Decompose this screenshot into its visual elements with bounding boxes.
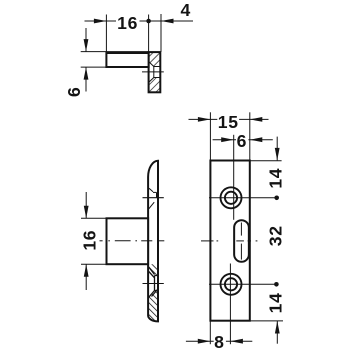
dimension 14 (top right): arrow [276, 137, 278, 161]
top view: hole centerline [142, 71, 164, 73]
svg-text:14: 14 [265, 168, 285, 189]
svg-text:16: 16 [117, 13, 138, 33]
dimension 16 (top view): dimension line and arrows [85, 20, 107, 22]
dimension 8: dimension line and arrows [186, 340, 210, 342]
dimension 14 (bottom right): extension line [250, 320, 283, 322]
dimension 15: dimension line with outside arrows [189, 118, 211, 120]
side view: plate profile hatching (sectioned lower half) [147, 264, 159, 322]
svg-text:14: 14 [265, 292, 285, 313]
dimension 16 (side view): arrows [85, 192, 87, 218]
side view: main horizontal centerline (dash-dot) [100, 240, 165, 242]
dimension 4 (top view) [160, 14, 162, 52]
front view: top hole horizontal centerline [209, 197, 277, 199]
side view: countersink section lines (bottom hole) [148, 267, 158, 298]
dimension 14 (top right): extension line [250, 160, 282, 162]
front view: top countersunk hole H1 [221, 187, 242, 208]
dimension 8: extension lines [209, 321, 211, 344]
front view: oblong slot [234, 220, 249, 262]
dimension 16 (side view): extension lines [81, 217, 107, 219]
front view: bottom countersunk hole H2 [221, 274, 242, 295]
front view: vertical centerline through holes (lower) [229, 264, 231, 345]
dimension 14 (bottom right): arrow [276, 321, 278, 344]
dimension 6 (top view): extension lines [81, 51, 149, 53]
top view: plate section outline [149, 52, 161, 92]
dimension 6 (top view): arrows [85, 28, 87, 52]
svg-text:6: 6 [237, 131, 248, 151]
top view: plate section hatching [149, 52, 161, 92]
front view: slot vertical centerline [240, 223, 242, 236]
front view: bottom hole horizontal centerline [209, 283, 277, 285]
svg-text:6: 6 [64, 87, 84, 98]
side view: bottom hole centerline [143, 283, 164, 285]
side view: top hole hidden countersink lines [149, 188, 157, 209]
front view: plate outline [210, 161, 249, 321]
top view: boss outline [106, 53, 148, 67]
front view: main horizontal centerline (dash-dot) [201, 240, 257, 242]
dimension 15: extension lines [209, 112, 211, 160]
side view: top hole centerline [143, 197, 164, 199]
dimension 14 (top right): dot terminator [274, 196, 279, 201]
svg-text:32: 32 [265, 225, 285, 246]
side view: boss outline [107, 218, 149, 264]
svg-text:4: 4 [181, 0, 192, 20]
dimension 6 (front view) [213, 139, 234, 141]
svg-text:8: 8 [214, 332, 225, 350]
svg-text:15: 15 [218, 112, 239, 132]
dimension 32: dot terminator [274, 282, 279, 287]
front view: vertical centerline through holes (upper) [233, 135, 235, 220]
dimension 16 (top view): extension lines [105, 15, 107, 53]
side view: plate profile outline [148, 161, 158, 322]
top view: countersink funnel outlines [149, 62, 161, 83]
svg-text:16: 16 [80, 230, 100, 251]
